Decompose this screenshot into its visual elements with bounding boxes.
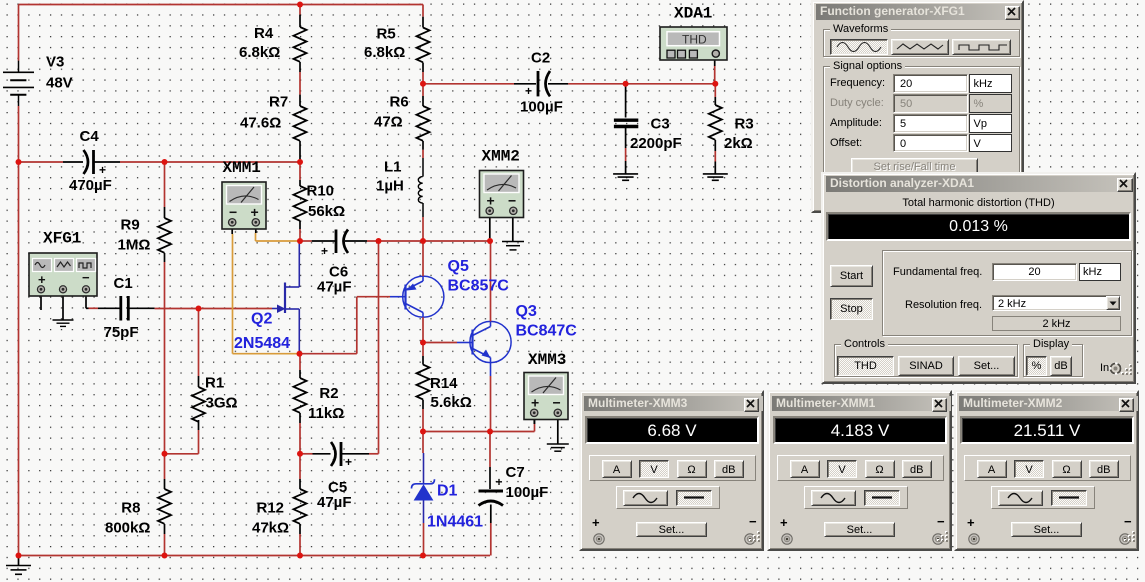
svg-text:+: + — [38, 272, 46, 287]
svg-text:V3: V3 — [46, 54, 64, 71]
svg-text:2kΩ: 2kΩ — [724, 135, 753, 152]
svg-text:C1: C1 — [114, 275, 133, 292]
svg-text:+: + — [321, 244, 328, 258]
svg-text:800kΩ: 800kΩ — [105, 520, 150, 537]
svg-text:+: + — [525, 84, 532, 98]
svg-text:47kΩ: 47kΩ — [252, 520, 289, 537]
svg-text:Q3: Q3 — [516, 303, 537, 320]
svg-text:R6: R6 — [390, 94, 409, 111]
svg-text:1N4461: 1N4461 — [427, 514, 483, 531]
svg-text:+: + — [487, 193, 495, 209]
svg-text:47µF: 47µF — [317, 494, 352, 511]
svg-text:1µH: 1µH — [376, 178, 404, 195]
svg-text:C3: C3 — [651, 116, 670, 133]
svg-text:47µF: 47µF — [317, 279, 352, 296]
svg-text:3GΩ: 3GΩ — [206, 395, 238, 412]
svg-text:2200pF: 2200pF — [630, 135, 682, 152]
svg-text:R1: R1 — [205, 375, 224, 392]
svg-text:R3: R3 — [735, 116, 754, 133]
svg-text:+: + — [496, 475, 503, 489]
svg-text:Q5: Q5 — [448, 258, 469, 275]
svg-text:6.8kΩ: 6.8kΩ — [239, 44, 280, 61]
svg-text:R14: R14 — [430, 375, 458, 392]
svg-text:XMM2: XMM2 — [482, 148, 520, 166]
svg-text:C4: C4 — [80, 128, 100, 145]
svg-text:−: − — [229, 204, 237, 220]
svg-text:D1: D1 — [437, 483, 458, 500]
svg-text:6.8kΩ: 6.8kΩ — [364, 44, 405, 61]
svg-text:−: − — [82, 270, 90, 285]
svg-text:R9: R9 — [121, 217, 140, 234]
svg-text:R7: R7 — [269, 94, 288, 111]
svg-text:L1: L1 — [384, 159, 402, 176]
svg-text:C7: C7 — [506, 464, 525, 481]
svg-text:XFG1: XFG1 — [43, 230, 81, 248]
svg-text:R10: R10 — [307, 183, 335, 200]
svg-text:+: + — [345, 455, 352, 469]
svg-text:BC857C: BC857C — [448, 278, 510, 295]
svg-text:BC847C: BC847C — [516, 323, 578, 340]
svg-text:+: + — [531, 395, 539, 411]
svg-text:XDA1: XDA1 — [674, 5, 712, 23]
svg-text:THD: THD — [682, 33, 707, 47]
svg-text:5.6kΩ: 5.6kΩ — [431, 394, 472, 411]
svg-text:11kΩ: 11kΩ — [308, 405, 344, 422]
svg-text:XMM1: XMM1 — [223, 159, 261, 177]
svg-text:+: + — [99, 163, 106, 177]
svg-text:+: + — [251, 204, 259, 220]
svg-text:56kΩ: 56kΩ — [308, 203, 345, 220]
svg-text:C2: C2 — [531, 50, 550, 67]
svg-text:−: − — [553, 395, 561, 411]
svg-text:1MΩ: 1MΩ — [118, 237, 151, 254]
svg-text:100µF: 100µF — [506, 484, 549, 501]
svg-text:2N5484: 2N5484 — [234, 335, 290, 352]
svg-text:Q2: Q2 — [251, 311, 272, 328]
svg-text:470µF: 470µF — [69, 177, 112, 194]
svg-text:XMM3: XMM3 — [528, 351, 566, 369]
svg-text:100µF: 100µF — [520, 99, 563, 116]
svg-text:47.6Ω: 47.6Ω — [240, 115, 281, 132]
svg-text:75pF: 75pF — [104, 324, 139, 341]
svg-text:47Ω: 47Ω — [374, 114, 403, 131]
svg-text:R8: R8 — [121, 500, 140, 517]
svg-text:R12: R12 — [257, 500, 285, 517]
svg-text:R2: R2 — [319, 385, 338, 402]
svg-text:48V: 48V — [46, 75, 73, 92]
svg-text:R4: R4 — [254, 25, 274, 42]
svg-text:−: − — [508, 193, 516, 209]
svg-text:R5: R5 — [377, 26, 396, 43]
